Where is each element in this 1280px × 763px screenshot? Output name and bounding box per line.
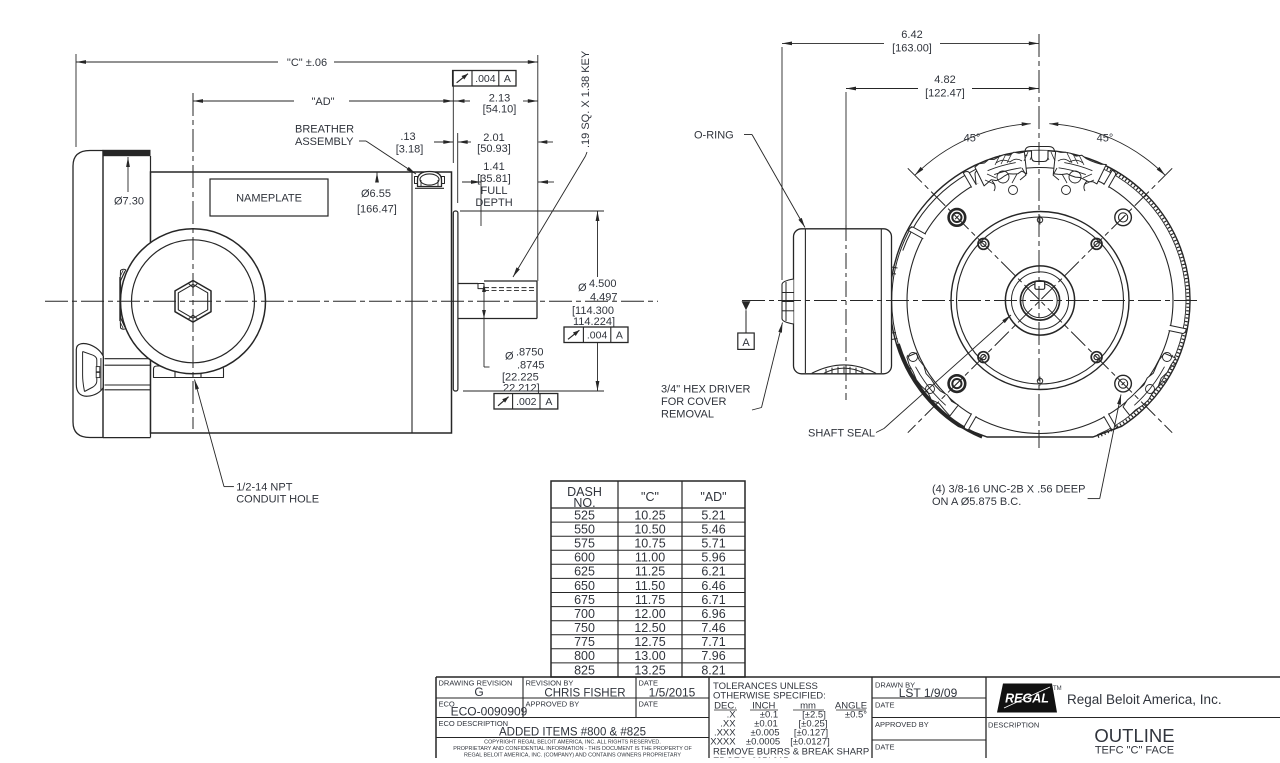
svg-text:11.25: 11.25 <box>635 565 665 579</box>
svg-text:ECO-0090909: ECO-0090909 <box>451 705 528 719</box>
svg-text:600: 600 <box>574 551 595 565</box>
svg-text:OUTLINE: OUTLINE <box>1094 725 1174 746</box>
svg-text:.8745: .8745 <box>517 360 545 372</box>
svg-text:.004: .004 <box>587 330 608 342</box>
svg-text:Ø7.30: Ø7.30 <box>114 196 144 208</box>
svg-text:O-RING: O-RING <box>694 130 734 142</box>
svg-text:4.82: 4.82 <box>934 74 955 86</box>
svg-text:10.50: 10.50 <box>634 522 665 536</box>
svg-text:A: A <box>742 337 750 349</box>
svg-text:550: 550 <box>574 522 595 536</box>
svg-text:.13: .13 <box>400 131 415 143</box>
svg-text:11.75: 11.75 <box>635 593 665 607</box>
svg-text:625: 625 <box>574 565 595 579</box>
svg-text:"AD": "AD" <box>700 490 726 504</box>
svg-text:PROPRIETARY AND CONFIDENTIAL I: PROPRIETARY AND CONFIDENTIAL INFORMATION… <box>453 746 692 752</box>
svg-text:650: 650 <box>574 579 595 593</box>
svg-text:ADDED ITEMS #800 & #825: ADDED ITEMS #800 & #825 <box>499 727 646 739</box>
svg-text:FOR COVER: FOR COVER <box>661 396 726 408</box>
svg-text:DATE: DATE <box>639 700 658 709</box>
svg-text:4.500: 4.500 <box>589 278 617 290</box>
svg-text:5.71: 5.71 <box>701 537 725 551</box>
svg-text:12.00: 12.00 <box>634 607 665 621</box>
svg-text:DATE: DATE <box>875 701 894 710</box>
svg-text:6.21: 6.21 <box>701 565 725 579</box>
svg-text:[35.81]: [35.81] <box>477 173 511 185</box>
svg-text:DEPTH: DEPTH <box>475 197 512 209</box>
svg-text:.002: .002 <box>516 396 537 408</box>
svg-text:.19 SQ. X 1.38 KEY: .19 SQ. X 1.38 KEY <box>580 50 592 148</box>
svg-text:6.71: 6.71 <box>701 593 725 607</box>
svg-text:REGAL BELOIT AMERICA, INC. (CO: REGAL BELOIT AMERICA, INC. (COMPANY) AND… <box>464 753 681 759</box>
svg-text:DATE: DATE <box>875 743 894 752</box>
svg-text:"C" ±.06: "C" ±.06 <box>287 57 327 69</box>
svg-text:13.25: 13.25 <box>634 663 665 677</box>
svg-text:NAMEPLATE: NAMEPLATE <box>236 193 302 205</box>
svg-text:750: 750 <box>574 621 595 635</box>
svg-text:TEFC "C" FACE: TEFC "C" FACE <box>1095 745 1174 757</box>
svg-text:ECO DESCRIPTION: ECO DESCRIPTION <box>439 719 509 728</box>
svg-text:ASSEMBLY: ASSEMBLY <box>295 136 354 148</box>
svg-text:8.21: 8.21 <box>701 663 725 677</box>
svg-text:DESCRIPTION: DESCRIPTION <box>988 721 1039 730</box>
svg-text:11.50: 11.50 <box>635 579 665 593</box>
svg-text:5.46: 5.46 <box>701 522 725 536</box>
svg-text:APPROVED BY: APPROVED BY <box>875 720 929 729</box>
svg-text:APPROVED BY: APPROVED BY <box>526 700 580 709</box>
svg-text:1/2-14 NPT: 1/2-14 NPT <box>236 482 293 494</box>
svg-text:.8750: .8750 <box>516 347 544 359</box>
svg-text:11.00: 11.00 <box>635 551 665 565</box>
svg-text:G: G <box>474 685 483 699</box>
svg-text:CHRIS FISHER: CHRIS FISHER <box>544 688 625 700</box>
svg-text:800: 800 <box>574 649 595 663</box>
svg-text:A: A <box>545 396 552 408</box>
svg-text:(4) 3/8-16 UNC-2B X .56 DEEP: (4) 3/8-16 UNC-2B X .56 DEEP <box>932 484 1085 496</box>
svg-text:12.75: 12.75 <box>634 635 665 649</box>
svg-text:6.46: 6.46 <box>701 579 725 593</box>
svg-text:[122.47]: [122.47] <box>925 88 965 100</box>
svg-text:REVISION BY: REVISION BY <box>526 679 574 688</box>
svg-text:3/4" HEX DRIVER: 3/4" HEX DRIVER <box>661 384 751 396</box>
svg-text:TM: TM <box>1053 686 1062 692</box>
svg-text:5.96: 5.96 <box>701 551 725 565</box>
svg-text:[163.00]: [163.00] <box>892 43 932 55</box>
svg-text:775: 775 <box>574 635 595 649</box>
svg-text:SHAFT SEAL: SHAFT SEAL <box>808 428 875 440</box>
svg-text:1.41: 1.41 <box>483 161 504 173</box>
svg-text:1/5/2015: 1/5/2015 <box>649 686 696 700</box>
svg-text:A: A <box>616 330 623 342</box>
svg-text:"C": "C" <box>641 490 659 504</box>
svg-text:22.212]: 22.212] <box>503 383 540 395</box>
svg-text:BREATHER: BREATHER <box>295 124 354 136</box>
svg-text:REMOVAL: REMOVAL <box>661 409 714 421</box>
svg-text:45°: 45° <box>964 133 981 145</box>
svg-text:[54.10]: [54.10] <box>483 104 517 116</box>
svg-text:Ø6.55: Ø6.55 <box>361 188 391 200</box>
svg-text:6.42: 6.42 <box>901 29 922 41</box>
svg-text:575: 575 <box>574 537 595 551</box>
svg-text:.004: .004 <box>475 73 496 85</box>
svg-text:Ø: Ø <box>578 282 587 294</box>
svg-text:Regal Beloit America, Inc.: Regal Beloit America, Inc. <box>1067 692 1222 707</box>
svg-text:7.71: 7.71 <box>701 635 725 649</box>
svg-text:CONDUIT HOLE: CONDUIT HOLE <box>236 494 319 506</box>
svg-text:A: A <box>504 73 511 85</box>
svg-text:45°: 45° <box>1097 133 1114 145</box>
svg-text:[166.47]: [166.47] <box>357 204 397 216</box>
svg-text:525: 525 <box>574 508 595 522</box>
svg-text:5.21: 5.21 <box>701 508 725 522</box>
svg-text:LST 1/9/09: LST 1/9/09 <box>899 686 958 700</box>
svg-text:"AD": "AD" <box>311 96 334 108</box>
svg-text:±0.5°: ±0.5° <box>845 710 867 721</box>
svg-text:7.96: 7.96 <box>701 649 725 663</box>
svg-text:10.75: 10.75 <box>634 537 665 551</box>
svg-text:COPYRIGHT REGAL BELOIT AMERICA: COPYRIGHT REGAL BELOIT AMERICA, INC. ALL… <box>484 740 661 746</box>
svg-text:6.96: 6.96 <box>701 607 725 621</box>
svg-text:675: 675 <box>574 593 595 607</box>
svg-text:Ø: Ø <box>505 351 514 363</box>
svg-text:7.46: 7.46 <box>701 621 725 635</box>
svg-text:FULL: FULL <box>481 185 508 197</box>
svg-text:ON A Ø5.875 B.C.: ON A Ø5.875 B.C. <box>932 496 1021 508</box>
svg-text:825: 825 <box>574 663 595 677</box>
svg-text:[50.93]: [50.93] <box>477 143 511 155</box>
svg-text:700: 700 <box>574 607 595 621</box>
svg-text:13.00: 13.00 <box>634 649 665 663</box>
svg-text:[3.18]: [3.18] <box>396 144 424 156</box>
svg-text:114.224]: 114.224] <box>573 316 615 328</box>
svg-text:10.25: 10.25 <box>634 508 665 522</box>
svg-text:12.50: 12.50 <box>634 621 665 635</box>
svg-text:REGAL: REGAL <box>1005 692 1049 706</box>
